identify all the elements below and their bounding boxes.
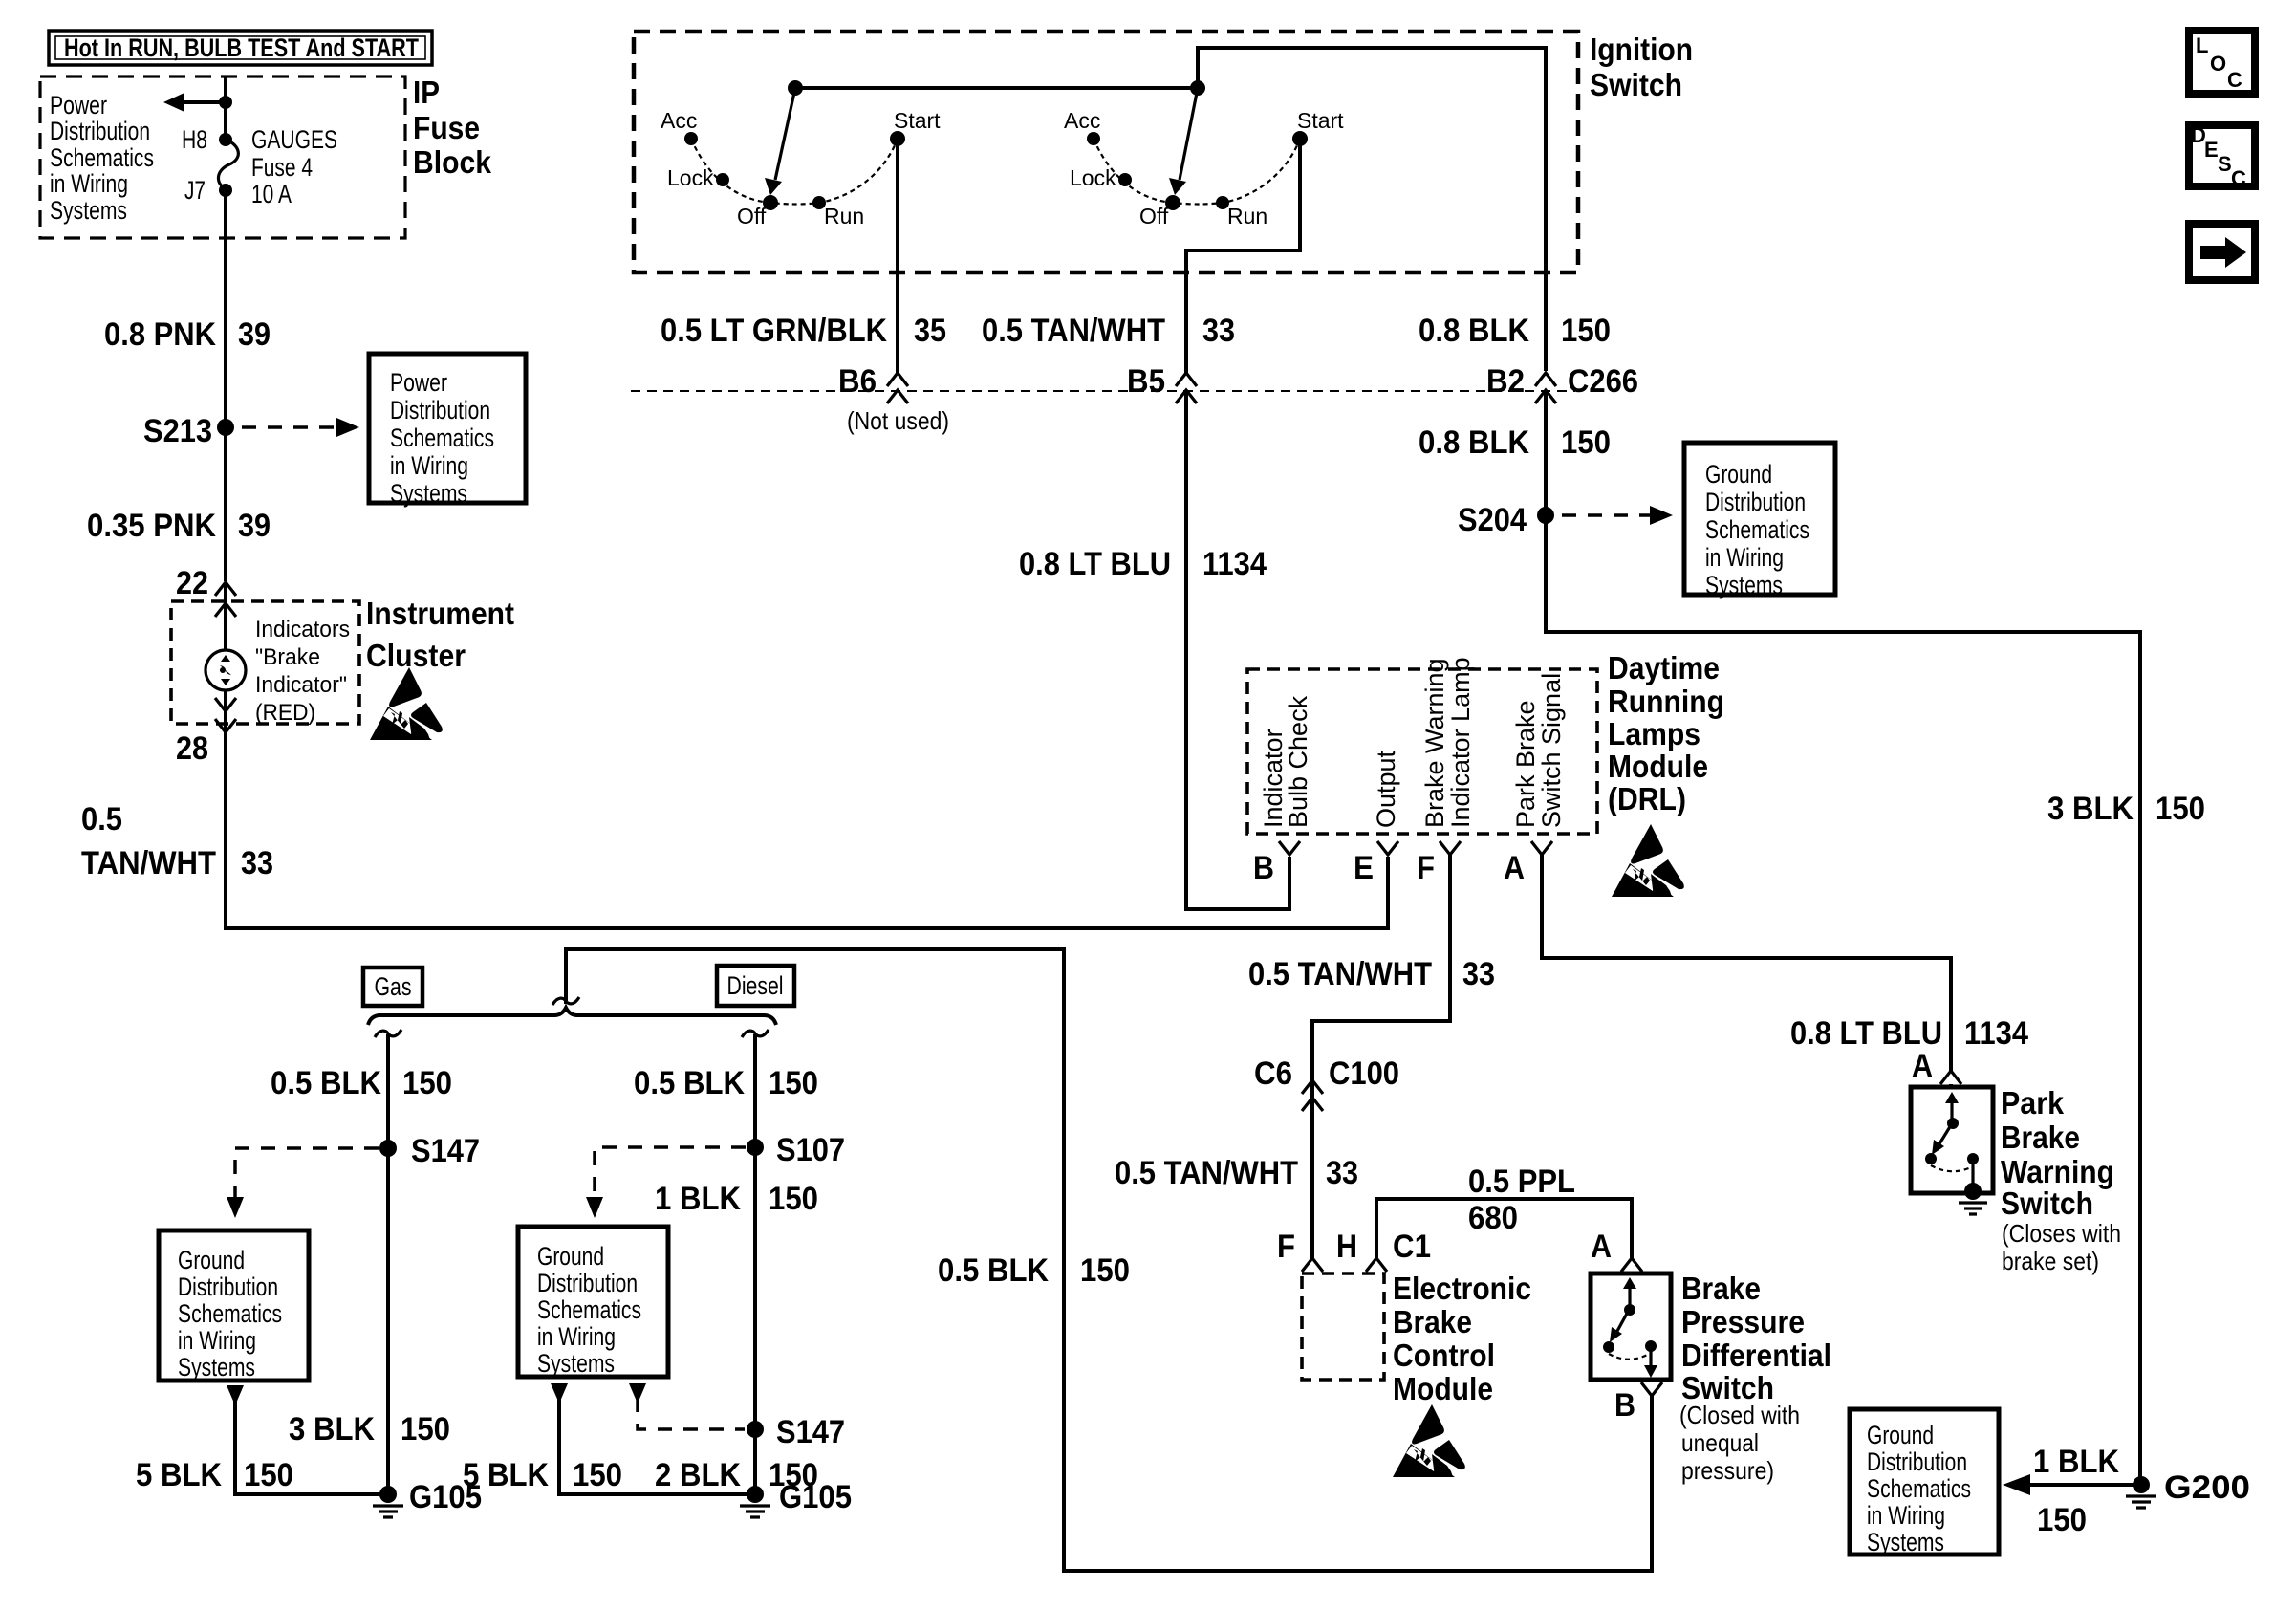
svg-text:S204: S204 [1458, 502, 1527, 538]
svg-text:Block: Block [413, 144, 492, 180]
box power distribution schematics (S213) [369, 354, 526, 508]
svg-text:Systems: Systems [1867, 1528, 1944, 1556]
svg-text:0.5 TAN/WHT: 0.5 TAN/WHT [1248, 956, 1432, 992]
option brace gas/diesel [368, 1008, 776, 1025]
svg-text:0.8 BLK: 0.8 BLK [1419, 313, 1529, 349]
wire 0.8 PNK 39 [224, 190, 227, 581]
svg-text:C: C [2231, 166, 2246, 190]
svg-text:A: A [1912, 1048, 1933, 1084]
pin A differential switch [1591, 1229, 1642, 1272]
svg-text:Run: Run [824, 204, 864, 228]
switch arm ignition 2 [1169, 88, 1198, 195]
label IP Fuse Block [413, 75, 492, 180]
svg-text:brake set): brake set) [2002, 1247, 2099, 1275]
dashed link S147 to ground distribution [227, 1148, 379, 1218]
svg-text:Module: Module [1608, 749, 1708, 784]
svg-text:in Wiring: in Wiring [390, 451, 468, 480]
svg-text:Brake: Brake [1393, 1304, 1472, 1339]
svg-text:0.8 LT BLU: 0.8 LT BLU [1019, 546, 1171, 582]
splice S107 [747, 1132, 845, 1168]
svg-text:Off: Off [1139, 204, 1169, 228]
svg-text:150: 150 [2155, 791, 2205, 827]
svg-text:150: 150 [244, 1457, 293, 1493]
node Lock 1 [667, 165, 729, 190]
svg-text:5 BLK: 5 BLK [136, 1457, 222, 1493]
title box Hot In RUN, BULB TEST And START [49, 31, 432, 65]
svg-text:3 BLK: 3 BLK [289, 1411, 375, 1447]
label 5 BLK 150 (gas) [136, 1457, 293, 1493]
svg-text:5 BLK: 5 BLK [463, 1457, 549, 1493]
svg-text:in Wiring: in Wiring [1867, 1501, 1945, 1530]
svg-text:Ground: Ground [1705, 460, 1772, 489]
wire break symbol gas leg [375, 1030, 401, 1037]
pin F EBCM [1277, 1229, 1323, 1272]
node Acc 2 [1064, 108, 1100, 145]
label Indicators Brake Indicator (RED) [255, 617, 350, 726]
svg-text:Electronic: Electronic [1393, 1271, 1531, 1306]
svg-text:H8: H8 [182, 125, 207, 154]
svg-text:150: 150 [401, 1411, 450, 1447]
splice S147 (diesel) [747, 1414, 845, 1450]
node Run 2 [1216, 196, 1267, 228]
svg-text:0.5 PPL: 0.5 PPL [1468, 1164, 1575, 1200]
dashed arrow S204 to ground distribution [1562, 506, 1673, 525]
label 3 BLK 150 [2047, 791, 2205, 827]
svg-text:Off: Off [737, 204, 767, 228]
svg-text:150: 150 [573, 1457, 622, 1493]
rotary arc ignition 2 [1094, 139, 1300, 205]
svg-text:0.5 BLK: 0.5 BLK [634, 1065, 745, 1101]
svg-text:Running: Running [1608, 684, 1724, 719]
wire 0.5 BLK 150 differential switch B to gas/diesel grounds [566, 949, 1652, 1571]
svg-text:GAUGES: GAUGES [251, 125, 337, 154]
park brake warning switch box [1911, 1087, 1993, 1193]
svg-text:(DRL): (DRL) [1608, 781, 1686, 816]
svg-text:0.8 BLK: 0.8 BLK [1419, 424, 1529, 461]
label 0.5 PPL 680 [1468, 1164, 1575, 1236]
svg-text:1134: 1134 [1202, 546, 1267, 582]
svg-text:S107: S107 [776, 1132, 845, 1168]
svg-text:pressure): pressure) [1681, 1456, 1774, 1485]
svg-text:Schematics: Schematics [1705, 515, 1809, 544]
pin B differential switch [1614, 1382, 1662, 1424]
connector B6 [838, 363, 908, 403]
svg-text:Indicator": Indicator" [255, 672, 347, 698]
wire 0.5 BLK 150 gas leg [386, 1034, 390, 1494]
svg-text:(RED): (RED) [255, 700, 315, 726]
label 0.5 BLK 150 (diesel) [634, 1065, 818, 1101]
value label GAUGES Fuse 4 10 A [251, 125, 337, 208]
svg-text:C1: C1 [1393, 1229, 1431, 1265]
wire break symbol diesel leg [742, 1030, 769, 1037]
svg-text:0.5 TAN/WHT: 0.5 TAN/WHT [982, 313, 1165, 349]
svg-text:B5: B5 [1127, 363, 1165, 400]
dashed link ground distribution to S147 (diesel) [629, 1383, 745, 1429]
wire ignition feed bus [788, 48, 1546, 371]
svg-text:S147: S147 [776, 1414, 845, 1450]
svg-text:Cluster: Cluster [366, 638, 466, 673]
node Start 2 [1292, 108, 1344, 146]
box ground distribution schematics (diesel) [518, 1227, 668, 1378]
svg-text:Ground: Ground [1867, 1421, 1934, 1449]
ground G105 (diesel) [740, 1479, 852, 1517]
svg-text:150: 150 [1561, 313, 1611, 349]
svg-text:Indicators: Indicators [255, 617, 350, 642]
svg-text:A: A [1591, 1229, 1612, 1265]
label 0.35 PNK 39 [87, 508, 271, 544]
node Run 1 [812, 196, 864, 228]
svg-text:Gas: Gas [375, 972, 412, 1001]
svg-text:S213: S213 [143, 413, 212, 449]
svg-text:Pressure: Pressure [1681, 1304, 1805, 1339]
svg-text:Acc: Acc [661, 108, 697, 133]
svg-text:Fuse: Fuse [413, 110, 480, 145]
EBCM dashed box [1302, 1273, 1384, 1380]
note power distribution schematics (fuse block) [50, 91, 154, 225]
pin B DRL [1253, 841, 1300, 886]
legend box DESC [2189, 123, 2255, 190]
label 0.5 BLK 150 (gas) [271, 1065, 452, 1101]
svg-text:Systems: Systems [537, 1349, 615, 1378]
svg-text:150: 150 [769, 1065, 818, 1101]
box ground distribution schematics (S204) [1684, 443, 1835, 599]
svg-text:(Closed with: (Closed with [1679, 1401, 1800, 1429]
svg-text:Warning: Warning [2001, 1154, 2114, 1189]
svg-text:22: 22 [176, 565, 208, 601]
svg-text:150: 150 [2037, 1502, 2087, 1538]
wire fuse input [224, 76, 227, 140]
svg-text:0.8 PNK: 0.8 PNK [104, 316, 216, 353]
svg-text:B: B [1614, 1387, 1635, 1424]
ESD symbol DRL [1612, 824, 1684, 897]
label Daytime Running Lamps Module (DRL) [1608, 650, 1724, 816]
svg-text:Park: Park [2001, 1085, 2065, 1120]
svg-text:1 BLK: 1 BLK [655, 1181, 741, 1217]
wire 0.8 BLK 150 from B2 to G200 bus [1546, 390, 2140, 1485]
label 0.5 TAN/WHT 33 (lower) [1115, 1155, 1358, 1191]
svg-text:3 BLK: 3 BLK [2047, 791, 2134, 827]
svg-text:"Brake: "Brake [255, 644, 320, 670]
wire start 1 to B6 [896, 143, 899, 373]
svg-text:F: F [1417, 850, 1435, 886]
svg-text:Fuse 4: Fuse 4 [251, 153, 313, 182]
svg-text:Switch: Switch [1590, 67, 1682, 102]
svg-text:0.5 BLK: 0.5 BLK [271, 1065, 381, 1101]
node Acc 1 [661, 108, 698, 145]
svg-text:G105: G105 [779, 1479, 852, 1515]
label 0.5 TAN/WHT 33 [81, 801, 273, 881]
svg-text:0.5 TAN/WHT: 0.5 TAN/WHT [1115, 1155, 1298, 1191]
svg-text:B6: B6 [838, 363, 877, 400]
svg-text:1134: 1134 [1964, 1015, 2028, 1052]
label 0.5 TAN/WHT 33 [982, 313, 1235, 349]
label Ignition Switch [1590, 32, 1693, 102]
svg-text:Ground: Ground [178, 1246, 245, 1274]
label 0.8 LT BLU 1134 [1019, 546, 1267, 582]
wire 1 BLK 150 to ground distribution [2003, 1474, 2140, 1495]
brake pressure differential switch box [1591, 1273, 1671, 1380]
legend box arrow [2189, 224, 2255, 280]
svg-text:C100: C100 [1329, 1055, 1399, 1092]
svg-text:Differential: Differential [1681, 1338, 1831, 1373]
ESD symbol EBCM [1393, 1404, 1465, 1477]
svg-text:35: 35 [914, 313, 946, 349]
svg-text:Hot In RUN, BULB TEST And STAR: Hot In RUN, BULB TEST And START [64, 33, 419, 62]
svg-text:680: 680 [1468, 1200, 1518, 1236]
svg-text:Schematics: Schematics [537, 1295, 641, 1324]
svg-text:Park Brake: Park Brake [1511, 700, 1540, 828]
option label Diesel [717, 966, 794, 1006]
svg-text:Lock: Lock [667, 165, 714, 190]
label 1 BLK 150 (G200) [2033, 1444, 2119, 1538]
fuse F4 GAUGES 10A [218, 140, 238, 190]
label 0.8 BLK 150 [1419, 313, 1611, 349]
wire 0.5 BLK 150 diesel leg [753, 1034, 757, 1494]
svg-text:C: C [2227, 68, 2242, 92]
label 0.8 BLK 150 (below C266) [1419, 424, 1611, 461]
svg-text:0.8 LT BLU: 0.8 LT BLU [1790, 1015, 1942, 1052]
splice S204 [1458, 502, 1554, 538]
svg-text:150: 150 [769, 1181, 818, 1217]
node Lock 2 [1070, 165, 1132, 190]
pin F DRL [1417, 841, 1461, 886]
wire 0.5 TAN/WHT 33 from DRL F to C100 [1312, 855, 1450, 1258]
svg-text:Systems: Systems [1705, 571, 1783, 599]
svg-text:10 A: 10 A [251, 180, 292, 208]
svg-text:Distribution: Distribution [50, 117, 150, 145]
connector chevrons pin 22 [215, 582, 236, 617]
node Off 2 [1139, 195, 1180, 228]
svg-text:G200: G200 [2164, 1469, 2250, 1506]
svg-text:IP: IP [413, 75, 440, 110]
svg-text:Brake: Brake [2001, 1120, 2080, 1155]
svg-text:TAN/WHT: TAN/WHT [81, 845, 216, 881]
svg-text:0.5 LT GRN/BLK: 0.5 LT GRN/BLK [661, 313, 887, 349]
label 0.5 TAN/WHT 33 (upper) [1248, 956, 1495, 992]
svg-text:B: B [1253, 850, 1274, 886]
svg-text:39: 39 [238, 316, 271, 353]
ground at park brake switch [1959, 1183, 1987, 1214]
label 5 BLK 150 (diesel) [463, 1457, 622, 1493]
svg-text:Daytime: Daytime [1608, 650, 1720, 685]
svg-text:in Wiring: in Wiring [50, 169, 128, 198]
wire into brake indicator lamp [224, 582, 227, 651]
connector B2 C266 [1486, 363, 1638, 403]
dashed link S107 to ground distribution [586, 1147, 746, 1218]
svg-text:2 BLK: 2 BLK [655, 1457, 741, 1493]
svg-text:O: O [2210, 52, 2226, 76]
label Electronic Brake Control Module [1393, 1271, 1531, 1406]
svg-text:in Wiring: in Wiring [537, 1322, 616, 1351]
label Park Brake Warning Switch [2001, 1085, 2121, 1275]
svg-text:Distribution: Distribution [537, 1269, 638, 1297]
IP fuse block dashed box [40, 76, 405, 238]
svg-text:33: 33 [1202, 313, 1235, 349]
svg-text:Module: Module [1393, 1371, 1493, 1406]
label 0.8 PNK 39 [104, 316, 271, 353]
park brake warning switch connector A [1912, 1048, 1961, 1087]
ground G105 (gas) [373, 1479, 482, 1517]
svg-text:Acc: Acc [1064, 108, 1100, 133]
svg-text:0.35 PNK: 0.35 PNK [87, 508, 216, 544]
svg-text:Control: Control [1393, 1338, 1495, 1373]
svg-text:Lamps: Lamps [1608, 716, 1700, 751]
svg-text:Run: Run [1227, 204, 1267, 228]
svg-text:C6: C6 [1254, 1055, 1292, 1092]
svg-text:Schematics: Schematics [390, 424, 494, 452]
svg-text:S147: S147 [411, 1133, 480, 1169]
svg-text:Instrument: Instrument [366, 596, 514, 631]
svg-text:Distribution: Distribution [390, 396, 490, 424]
svg-text:Distribution: Distribution [1705, 488, 1806, 516]
connector chevrons pin 28 [215, 698, 236, 732]
label 0.8 LT BLU 1134 (park brake) [1790, 1015, 2028, 1052]
label 3 BLK 150 (gas) [289, 1411, 450, 1447]
svg-text:150: 150 [1561, 424, 1611, 461]
svg-text:Brake: Brake [1681, 1271, 1761, 1306]
svg-text:E: E [2204, 138, 2219, 162]
option split symbol [552, 997, 579, 1005]
pin name Indicator Bulb Check [1259, 695, 1312, 828]
box ground distribution schematics (gas) [159, 1230, 309, 1382]
svg-text:Power: Power [50, 91, 107, 120]
svg-text:A: A [1504, 850, 1525, 886]
svg-text:39: 39 [238, 508, 271, 544]
label 1 BLK 150 [655, 1181, 818, 1217]
pin name Park Brake Switch Signal [1511, 673, 1566, 828]
label 0.5 LT GRN/BLK 35 [661, 313, 946, 349]
connector C100 pin C6 [1254, 1055, 1399, 1111]
legend box LOC [2189, 31, 2255, 94]
park brake switch contacts [1925, 1092, 1979, 1187]
differential switch contacts [1603, 1277, 1657, 1378]
svg-text:Start: Start [894, 108, 941, 133]
node Start 1 [890, 108, 941, 146]
wire 0.5 TAN/WHT 33 from cluster to DRL output [226, 690, 1388, 928]
ESD symbol instrument cluster [370, 667, 443, 740]
pin H EBCM [1336, 1229, 1387, 1272]
wire park brake signal DRL A to park brake switch [1542, 855, 1951, 1071]
ground G200 [2126, 1469, 2250, 1508]
splice S147 (gas) [379, 1133, 480, 1169]
box ground distribution schematics (G200) [1850, 1409, 1999, 1556]
svg-text:in Wiring: in Wiring [178, 1326, 256, 1355]
label Instrument Cluster [366, 596, 514, 673]
svg-text:Systems: Systems [390, 479, 467, 508]
svg-text:E: E [1354, 850, 1374, 886]
svg-text:J7: J7 [184, 176, 206, 205]
svg-text:Schematics: Schematics [1867, 1474, 1971, 1503]
connector B5 [1127, 363, 1197, 403]
svg-text:Brake Warning: Brake Warning [1420, 658, 1449, 828]
pin name Brake Warning Indicator Lamp [1420, 657, 1475, 828]
svg-text:F: F [1277, 1229, 1295, 1265]
svg-text:in Wiring: in Wiring [1705, 543, 1784, 572]
svg-text:28: 28 [176, 730, 208, 767]
svg-text:0.5 BLK: 0.5 BLK [938, 1252, 1049, 1289]
label Brake Pressure Differential Switch [1679, 1271, 1831, 1485]
wire 5 BLK 150 from ground distribution (diesel) [551, 1383, 755, 1494]
svg-text:(Not used): (Not used) [847, 406, 949, 435]
svg-text:Switch Signal: Switch Signal [1537, 673, 1566, 828]
svg-text:Distribution: Distribution [1867, 1447, 1967, 1476]
svg-text:Output: Output [1372, 750, 1400, 828]
svg-text:unequal: unequal [1681, 1428, 1759, 1457]
brake indicator lamp [206, 650, 246, 690]
wire 0.5 PPL 680 EBCM H to differential switch A [1376, 1199, 1632, 1258]
svg-text:1 BLK: 1 BLK [2033, 1444, 2119, 1480]
svg-text:Lock: Lock [1070, 165, 1116, 190]
svg-text:Ignition: Ignition [1590, 32, 1693, 67]
dashed arrow S213 to power distribution [242, 418, 359, 437]
svg-text:Distribution: Distribution [178, 1273, 278, 1301]
label 2 BLK 150 [655, 1457, 818, 1493]
svg-text:(Closes with: (Closes with [2002, 1219, 2121, 1248]
svg-text:0.5: 0.5 [81, 801, 122, 838]
rotary arc ignition 1 [691, 139, 898, 205]
svg-text:33: 33 [1326, 1155, 1358, 1191]
svg-text:Diesel: Diesel [727, 971, 784, 1000]
wire 0.8 LT BLU 1134 from B5 to DRL pin B [1186, 390, 1289, 909]
svg-text:Bulb Check: Bulb Check [1284, 695, 1312, 828]
DRL module dashed box [1247, 669, 1597, 834]
svg-text:Ground: Ground [537, 1242, 604, 1271]
node Off 1 [737, 195, 778, 228]
pin H8 [182, 125, 232, 154]
connector C266 dashed line [631, 390, 1575, 392]
svg-text:Schematics: Schematics [178, 1299, 282, 1328]
svg-text:Systems: Systems [50, 196, 127, 225]
pin J7 [184, 176, 232, 205]
svg-text:33: 33 [241, 845, 273, 881]
svg-text:Schematics: Schematics [50, 143, 154, 172]
ignition switch dashed box [634, 32, 1578, 272]
svg-text:S: S [2218, 152, 2232, 176]
svg-text:L: L [2196, 33, 2208, 57]
instrument cluster dashed box [171, 601, 359, 724]
pin E DRL [1354, 841, 1398, 886]
splice S213 [143, 413, 234, 449]
wire start 2 to B5 [1186, 143, 1300, 373]
arrow to power distribution [163, 93, 232, 112]
svg-text:Indicator Lamp: Indicator Lamp [1446, 657, 1475, 828]
svg-text:C266: C266 [1568, 363, 1638, 400]
svg-text:Start: Start [1297, 108, 1344, 133]
pin A DRL [1504, 841, 1552, 886]
svg-text:Systems: Systems [178, 1353, 255, 1382]
svg-text:Switch: Switch [2001, 1186, 2093, 1221]
switch arm ignition 1 [765, 88, 795, 195]
svg-text:150: 150 [1080, 1252, 1130, 1289]
svg-text:B2: B2 [1486, 363, 1525, 400]
wire 5 BLK 150 from ground distribution (gas) [227, 1385, 388, 1494]
label 0.5 BLK 150 (switch B) [938, 1252, 1130, 1289]
option label Gas [363, 968, 422, 1006]
svg-text:H: H [1336, 1229, 1357, 1265]
svg-text:33: 33 [1462, 956, 1495, 992]
svg-text:Power: Power [390, 368, 447, 397]
svg-text:150: 150 [402, 1065, 452, 1101]
